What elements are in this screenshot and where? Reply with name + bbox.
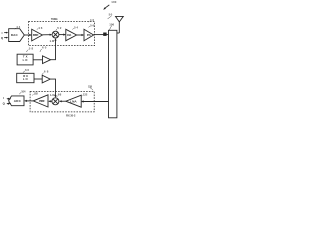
svg-text:104: 104	[21, 90, 26, 94]
svg-text:RX 30-2: RX 30-2	[66, 114, 76, 118]
svg-text:52: 52	[57, 26, 61, 30]
svg-text:60: 60	[42, 46, 47, 50]
svg-text:LNA: LNA	[70, 99, 77, 103]
svg-text:118: 118	[88, 85, 92, 89]
svg-text:106: 106	[109, 22, 114, 26]
svg-text:102: 102	[34, 92, 39, 96]
svg-text:50: 50	[109, 13, 113, 17]
svg-text:LO: LO	[23, 58, 29, 62]
svg-text:46: 46	[38, 26, 42, 30]
svg-text:100: 100	[111, 0, 117, 4]
svg-text:68: 68	[44, 69, 49, 73]
svg-text:44: 44	[16, 25, 20, 29]
svg-text:58: 58	[29, 46, 34, 50]
svg-text:LO: LO	[23, 77, 29, 81]
svg-text:56: 56	[90, 23, 94, 27]
svg-text:54: 54	[74, 26, 78, 30]
svg-text:TX 30-1: TX 30-1	[51, 17, 58, 21]
svg-text:ADC: ADC	[14, 99, 22, 103]
svg-text:122: 122	[83, 93, 88, 97]
svg-text:BBF: BBF	[39, 99, 45, 103]
svg-text:40: 40	[90, 18, 95, 22]
svg-text:98: 98	[58, 93, 62, 97]
svg-text:66: 66	[25, 68, 29, 72]
svg-text:DAC: DAC	[11, 33, 19, 37]
svg-text:BBF: BBF	[33, 33, 39, 37]
